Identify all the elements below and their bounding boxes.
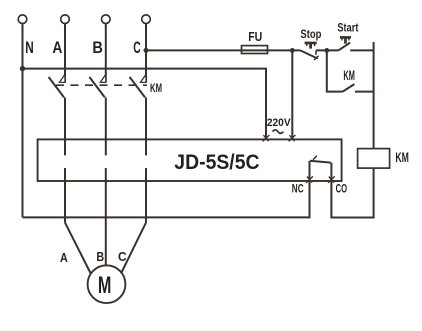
- svg-text:KM: KM: [150, 81, 162, 95]
- wire phase A upper: [64, 24, 66, 83]
- svg-text:FU: FU: [248, 30, 262, 44]
- relay output blade tick: [313, 156, 317, 160]
- svg-text:Start: Start: [337, 21, 358, 35]
- terminal C: [142, 15, 151, 24]
- svg-text:B: B: [92, 38, 103, 57]
- svg-text:CO: CO: [336, 183, 348, 195]
- svg-text:220V: 220V: [267, 117, 291, 129]
- terminal N: [18, 15, 27, 24]
- wire KM aux branch drop: [327, 50, 343, 91]
- svg-text:C: C: [118, 250, 127, 264]
- wire right rail: [373, 42, 375, 149]
- relay output blade: [310, 161, 331, 163]
- relay output CO stub: [330, 163, 332, 181]
- wire motor lead C: [120, 223, 146, 276]
- wire N bus to 220V left drop: [23, 69, 267, 140]
- terminal X mark 220V left: [263, 135, 270, 141]
- wire C phase to fuse and stop: [146, 49, 300, 51]
- svg-text:Stop: Stop: [300, 27, 321, 41]
- svg-text:NC: NC: [292, 183, 304, 195]
- svg-text:KM: KM: [343, 68, 355, 83]
- contact KM auxiliary blade: [343, 84, 355, 92]
- wire phase B lower: [105, 97, 107, 155]
- svg-text:A: A: [52, 38, 62, 57]
- node control junction 2: [324, 48, 329, 53]
- node N bus junction: [20, 66, 25, 71]
- label AC tilde: [273, 130, 284, 134]
- wire phase B to motor: [105, 168, 107, 266]
- contactor KM main contact C fixed triangle: [141, 74, 147, 82]
- relay output NC stub: [309, 161, 311, 181]
- wire start to right rail: [350, 49, 373, 51]
- svg-text:JD-5S/5C: JD-5S/5C: [174, 151, 259, 174]
- wire NC return to N: [23, 181, 310, 218]
- fuse FU: [242, 46, 268, 54]
- pushbutton Stop actuator T: [305, 42, 317, 49]
- node control junction 1: [290, 48, 295, 53]
- terminal A: [61, 15, 70, 24]
- contactor KM main contact C blade: [130, 77, 145, 97]
- wire N vertical: [22, 24, 24, 218]
- wire motor lead A: [65, 223, 92, 276]
- terminal B: [102, 15, 111, 24]
- wire 220V right drop: [291, 50, 293, 139]
- contactor KM main contact A fixed triangle: [60, 74, 66, 82]
- svg-text:KM: KM: [395, 150, 409, 165]
- wire phase A through relay: [64, 168, 66, 223]
- pushbutton Stop fixed stub: [315, 50, 317, 54]
- contactor KM main contact B blade: [89, 77, 104, 97]
- pushbutton Stop contact tick: [314, 56, 319, 60]
- node C branch junction: [144, 48, 149, 53]
- contactor KM main contact A blade: [49, 77, 64, 97]
- pushbutton Start blade: [338, 43, 350, 51]
- terminal X mark CO: [328, 176, 335, 182]
- wire phase A lower: [64, 97, 66, 155]
- svg-text:C: C: [133, 38, 141, 57]
- wire coil bottom to CO: [331, 168, 373, 217]
- wire phase B upper: [105, 24, 107, 83]
- svg-text:N: N: [25, 38, 34, 57]
- KM linkage dashed line: [56, 84, 147, 86]
- wire phase C upper: [145, 24, 147, 83]
- svg-text:B: B: [96, 250, 104, 264]
- terminal X mark NC: [306, 176, 313, 182]
- terminal X mark 220V right: [289, 135, 296, 141]
- wire phase C lower: [145, 97, 147, 155]
- motor M1: [88, 265, 126, 303]
- wire stop to start: [316, 49, 338, 51]
- pushbutton Stop blade: [300, 50, 317, 58]
- wire phase C through relay: [145, 168, 147, 223]
- contactor KM main contact B fixed triangle: [100, 74, 106, 82]
- wire KM aux fixed side: [355, 91, 374, 93]
- relay box JD-5S/5C: [38, 139, 342, 181]
- pushbutton Start actuator T: [340, 36, 351, 44]
- svg-text:A: A: [60, 251, 68, 265]
- svg-text:M: M: [98, 272, 112, 299]
- coil KM: [358, 149, 390, 169]
